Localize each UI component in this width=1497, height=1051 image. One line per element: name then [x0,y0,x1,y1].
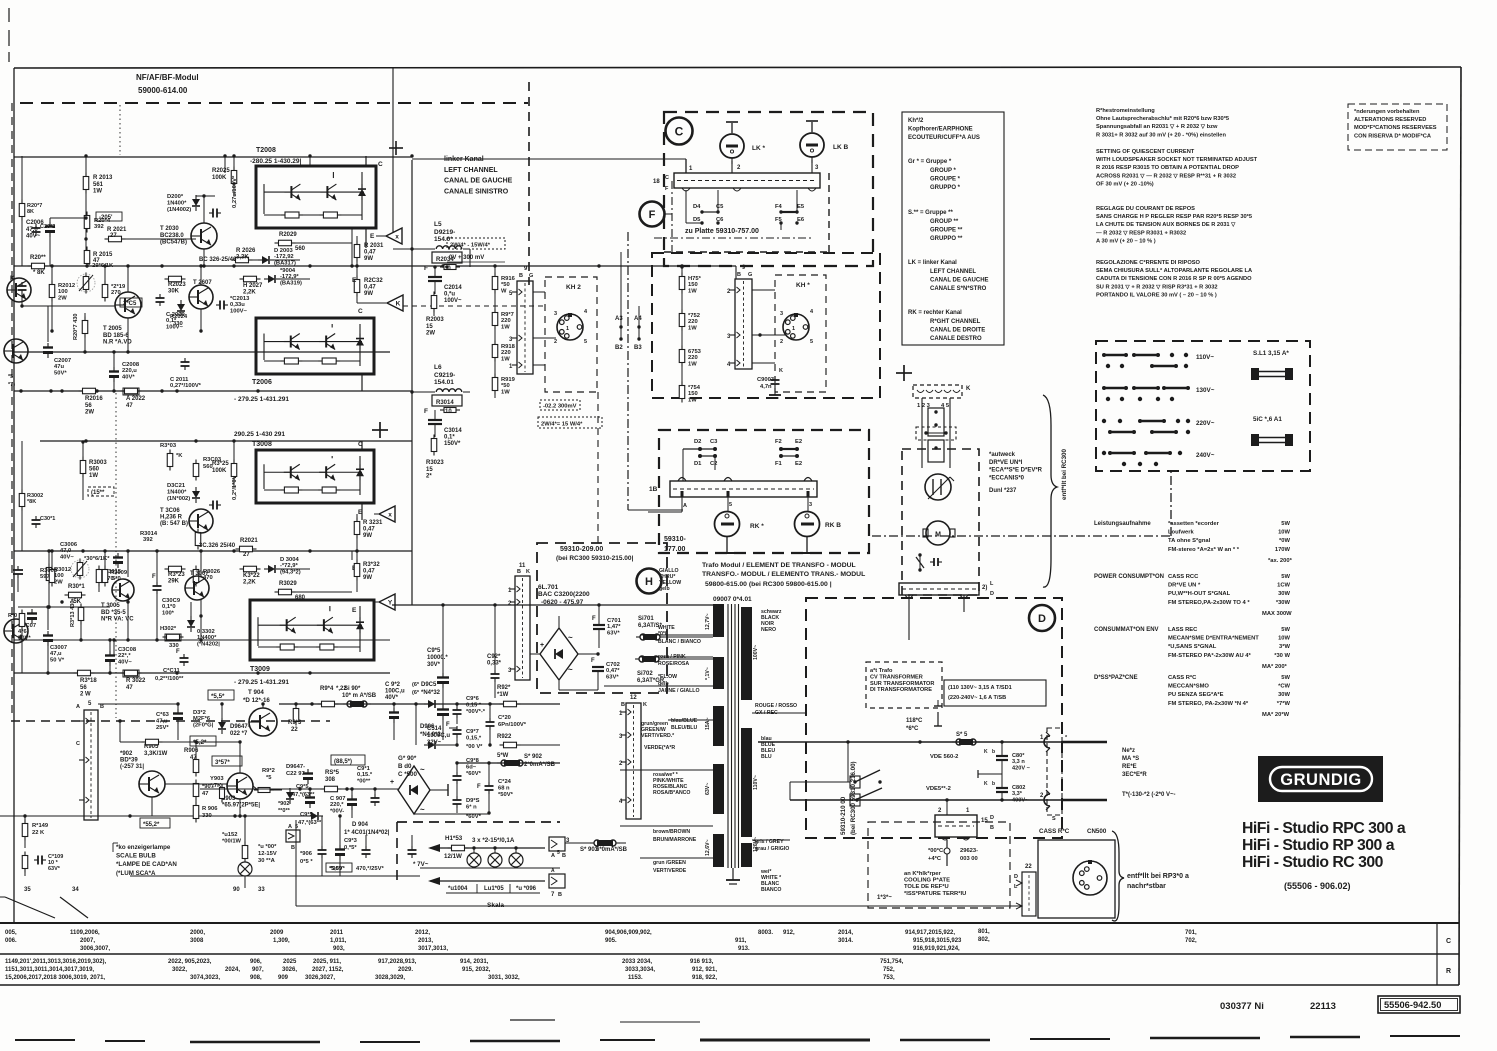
svg-text:H302*: H302* [160,626,177,632]
svg-text:B d0: B d0 [398,763,412,770]
svg-text:*30*6/1K*: *30*6/1K* [84,556,110,562]
triangle X ch1 [386,228,402,244]
svg-text:F1: F1 [775,461,783,467]
resistor R2032 [354,280,360,293]
resistor R2031 [354,245,360,258]
svg-text:*00/1W: *00/1W [222,838,242,844]
diode and small parts upper ch2 [193,464,199,477]
svg-text:GROUPE *: GROUPE * [930,176,961,182]
svg-text:270: 270 [111,290,121,296]
svg-text:K: K [984,781,988,787]
connector A5B small [286,830,300,842]
svg-text:*754: *754 [688,385,701,391]
svg-text:A: A [551,853,555,859]
svg-text:D9219-: D9219- [434,229,455,236]
svg-text:C30C9: C30C9 [162,598,181,604]
svg-text:B: B [517,569,521,575]
svg-text:R: R [1446,968,1451,975]
svg-text:0,15.*: 0,15.* [357,772,373,778]
svg-text:0,33u: 0,33u [230,302,245,308]
dotted divider x120 top [119,105,121,155]
drive unit exit wires [908,595,910,640]
svg-text:T 3007: T 3007 [190,571,209,577]
svg-text:SUR TRANSFORMATOR: SUR TRANSFORMATOR [870,681,934,687]
svg-text:F2: F2 [775,439,782,445]
svg-text:2,2K: 2,2K [243,290,256,296]
lamps Lu1004-1006 [467,853,481,867]
table line 3 [0,984,1459,986]
voltage row 220V [1140,420,1164,423]
transistor T904 [249,708,277,736]
module T3009 internal resistor 2 [250,600,374,660]
svg-text:VERDE(*A*R: VERDE(*A*R [644,745,675,751]
resistors R751-R754 chain [679,277,685,290]
capacitor C3012 [209,504,213,506]
svg-text:ROSE/ROSA: ROSE/ROSA [658,661,689,667]
svg-text:130V~: 130V~ [1196,387,1215,394]
svg-text:R919: R919 [501,377,516,383]
svg-text:2): 2) [982,585,987,591]
svg-text:0,47: 0,47 [364,249,376,255]
svg-text:*6*C: *6*C [906,726,919,732]
svg-text:3,3K: 3,3K [236,254,249,260]
resistor R3022 [125,670,138,676]
svg-text:C: C [1446,938,1451,945]
resistor R3023 [431,439,437,452]
svg-text:BC238.0: BC238.0 [160,233,184,239]
svg-text:C3006: C3006 [60,542,78,548]
svg-text:C*C11: C*C11 [163,668,181,674]
svg-text:R3*18: R3*18 [80,678,97,684]
svg-text:b: b [992,781,995,787]
svg-text:K: K [643,702,647,708]
svg-text:2025: 2025 [283,959,297,965]
diode D907 vertical [289,788,291,792]
svg-text:R 906: R 906 [202,806,218,812]
svg-text:6L.701: 6L.701 [538,584,559,591]
svg-text:10W: 10W [1278,530,1290,536]
svg-text:(110 130V~ 3,15 A T/SD1: (110 130V~ 3,15 A T/SD1 [948,685,1012,691]
boxed label 15.5V [208,690,234,700]
boxed label 88.5V [331,755,365,765]
svg-text:1W: 1W [501,356,510,362]
brace entfaellt RC300 [1043,395,1057,587]
connector strip A5B left [84,710,98,820]
svg-text:C9*7: C9*7 [466,729,479,735]
capacitor C2006 [49,222,51,227]
svg-text:2*C5: 2*C5 [123,301,137,307]
svg-text:30 **A: 30 **A [258,858,276,864]
svg-text:330: 330 [202,813,212,819]
svg-text:C9003: C9003 [757,377,775,383]
svg-text:E2: E2 [795,461,802,467]
svg-text:H 2027: H 2027 [243,283,263,289]
junction dots rails ch2 [84,439,87,442]
svg-text:*autweck: *autweck [989,452,1016,458]
svg-text:R916: R916 [501,276,516,282]
svg-text:*5: *5 [8,374,13,380]
GRUNDIG logo [1258,756,1383,802]
svg-text:R30*1: R30*1 [68,584,85,590]
svg-text:55506-942.50: 55506-942.50 [1384,1000,1441,1010]
svg-text:918, 922,: 918, 922, [692,975,717,981]
svg-text:C3C08: C3C08 [118,647,137,653]
svg-text:118*C: 118*C [906,718,923,724]
svg-text:*K: *K [176,453,183,459]
svg-text:*00V*-*: *00V*-* [466,709,486,715]
brace entfaellt RP300a [1112,831,1124,921]
svg-text:47: 47 [202,791,208,797]
svg-text:CON RISERVA D* MODIF*CA: CON RISERVA D* MODIF*CA [1354,133,1431,139]
svg-text:100V~: 100V~ [444,298,462,304]
svg-text:BIANCO: BIANCO [761,887,781,893]
svg-text:T 2005: T 2005 [103,326,122,332]
svg-text:*55,2*: *55,2* [143,822,160,828]
resistor R3011 [69,592,82,598]
border top [14,67,1461,68]
svg-text:VERT/VERDE: VERT/VERDE [653,868,687,874]
svg-text:KH 2: KH 2 [566,284,581,291]
svg-text:R*GHT CHANNEL: R*GHT CHANNEL [930,319,981,325]
plus sign top amp right [389,147,403,149]
svg-text:*C2013: *C2013 [230,296,250,302]
svg-text:1: 1 [792,326,795,332]
svg-text:47,u: 47,u [156,718,168,724]
svg-text:90: 90 [233,887,240,893]
dashed box RK block [659,430,869,553]
svg-text:22113: 22113 [1310,1001,1336,1012]
wire GL901 left [395,788,398,790]
svg-text:560: 560 [89,466,100,472]
svg-text:802,: 802, [978,937,990,943]
svg-text:8003.: 8003. [758,930,773,936]
triangle Y ch2 [379,594,395,610]
svg-text:5: 5 [729,502,732,508]
svg-text:10: 10 [445,409,452,415]
svg-text:C*24: C*24 [498,779,512,785]
svg-text:zu Platte 59310-757.00: zu Platte 59310-757.00 [685,228,759,235]
svg-text:(*N4202|: (*N4202| [197,641,220,647]
svg-text:COOLING P*ATE: COOLING P*ATE [904,878,950,884]
mains plug contact 1 [1044,736,1050,748]
svg-text:A 30 mV (+ 20 – 10 % ): A 30 mV (+ 20 – 10 % ) [1096,238,1156,244]
svg-text:B: B [100,704,104,710]
svg-text:903,: 903, [333,946,345,952]
svg-text:56: 56 [85,403,92,409]
svg-text:brown/BROWN: brown/BROWN [653,829,690,835]
svg-text:R 2031: R 2031 [364,243,384,249]
svg-text:D 904: D 904 [352,822,369,828]
svg-text:50 V*: 50 V* [50,657,65,663]
svg-text:(BA317): (BA317) [274,260,296,266]
svg-text:C: C [675,124,684,138]
svg-text:C: C [76,741,80,747]
svg-text:(BC547B): (BC547B) [160,240,187,246]
thermal fuse connector [935,815,977,837]
svg-text:Si702: Si702 [637,671,653,677]
svg-text:47,*(63**: 47,*(63** [292,792,315,798]
svg-text:1109,2006,: 1109,2006, [70,930,100,936]
svg-text:C*63: C*63 [156,712,170,718]
svg-text:5W: 5W [1281,521,1290,527]
table line 2 [0,953,1459,955]
svg-text:BD *35-5: BD *35-5 [101,610,126,616]
svg-text:*906: *906 [300,851,313,857]
svg-text:L5: L5 [434,221,442,228]
connector strip 11 B K [515,576,530,680]
svg-text:SU R 2031 ▽ + R 2032 ▽ RISP: SU R 2031 ▽ + R 2032 ▽ RISP R3*31 + R 30… [1096,284,1218,290]
dashed box KH1 [775,275,826,392]
svg-text:T 904: T 904 [248,689,264,696]
svg-text:W: W [501,288,507,294]
svg-text:9W: 9W [364,256,373,262]
svg-text:R3029: R3029 [279,581,297,587]
svg-text:B: B [291,845,295,851]
svg-text:A4: A4 [634,316,642,322]
svg-text:DI TRANSFORMATORE: DI TRANSFORMATORE [870,687,932,693]
svg-text:1,47*: 1,47* [607,624,621,630]
scale bulb [238,862,252,876]
svg-text:D9647-: D9647- [230,724,250,730]
wires strip to KH2 [533,291,545,293]
svg-text:*50: *50 [501,282,510,288]
dash-dot vertical A-line [627,232,629,510]
svg-text:12,7V~: 12,7V~ [705,613,711,630]
svg-text:Si701: Si701 [638,616,654,622]
svg-text:gelb: gelb [659,586,670,592]
svg-text:(1N*002): (1N*002) [167,496,190,502]
svg-text:NF/AF/BF-Modul: NF/AF/BF-Modul [136,73,199,82]
svg-text:100V~: 100V~ [753,645,759,660]
svg-text:-280.25 1-430.29|: -280.25 1-430.29| [250,158,302,165]
svg-text:D3*2: D3*2 [193,710,206,716]
svg-text:E2: E2 [795,439,802,445]
svg-text:F: F [424,265,428,272]
svg-text:240V~: 240V~ [1196,452,1215,459]
svg-text:K: K [984,749,988,755]
svg-text:R*149: R*149 [32,823,49,829]
dashed box 5.5V supply [397,821,560,823]
svg-text:B: B [990,825,994,831]
svg-text:D9C5: D9C5 [421,682,437,688]
transistor T2030 [191,223,217,249]
oval label 2W/4ohm ch2 [538,417,602,428]
svg-text:1: 1 [566,326,569,332]
resistor R2029 560 [279,240,292,246]
svg-text:560: 560 [203,464,213,470]
svg-text:MA* 200*: MA* 200* [1262,664,1288,670]
dashed box GL701 supply [537,543,667,693]
svg-text:2027, 1152,: 2027, 1152, [312,967,344,973]
svg-text:+4*C: +4*C [928,856,942,862]
fuse ratings box [944,680,1046,706]
svg-text:47,0: 47,0 [60,548,71,554]
svg-text:DR*VE UN *: DR*VE UN * [1168,583,1201,589]
left lamp rail [14,815,120,817]
svg-text:*ko enzeigerlampe: *ko enzeigerlampe [116,844,171,851]
svg-text:3017,3013,: 3017,3013, [418,946,448,952]
svg-text:150: 150 [688,391,698,397]
speaker LKII [800,133,824,157]
svg-text:D: D [990,591,994,597]
bridge rectifier GL701 [540,628,578,680]
svg-text:18: 18 [653,179,660,185]
svg-text:29K: 29K [168,579,180,585]
connector strip 12 B K [626,703,641,819]
svg-text:4*6: 4*6 [18,629,27,635]
svg-text:B: B [737,272,741,278]
wire feed into bar pin1 [412,158,686,160]
svg-text:C92*: C92* [487,654,501,660]
svg-text:C: C [378,161,383,168]
svg-text:0,*u: 0,*u [444,292,455,298]
svg-text:*-29*6/1K: *-29*6/1K [88,263,114,269]
svg-text:2*0mA*/SB: 2*0mA*/SB [524,762,556,768]
svg-text:Si 90*: Si 90* [344,686,361,692]
label 35.52V boxed [140,818,170,828]
svg-text:blau/BLUE: blau/BLUE [671,718,698,724]
svg-text:220: 220 [501,318,511,324]
svg-text:3026,3027,: 3026,3027, [305,975,335,981]
svg-text:R9*7: R9*7 [501,312,514,318]
board inner dashed edge right [828,173,830,252]
svg-text:GROUP *: GROUP * [930,168,957,174]
svg-text:3074,3023,: 3074,3023, [190,975,220,981]
vertical bus x393 [392,67,394,236]
resistor R3025 [193,570,199,583]
svg-text:5: 5 [557,850,560,856]
svg-text:C80*: C80* [1012,753,1025,759]
connector strip KH2 side [517,281,533,374]
svg-text:3014.: 3014. [838,938,853,944]
svg-text:B: B [621,702,625,708]
label 2005 box [120,298,142,307]
svg-text:RK B: RK B [825,522,841,529]
svg-text:801,: 801, [978,929,990,935]
svg-text:R9*2: R9*2 [262,768,275,774]
svg-text:915, 2032,: 915, 2032, [462,967,491,973]
wire L6 left [412,391,428,393]
table divider vertical [1436,923,1438,985]
transistor left edge ch1 [7,278,31,302]
svg-text:D*SS*PAZ*CNE: D*SS*PAZ*CNE [1094,675,1138,681]
svg-text:110V~: 110V~ [753,775,759,790]
svg-text:*30W: *30W [1276,600,1291,606]
svg-text:*N4*32: *N4*32 [421,690,441,696]
svg-text:S* 902: S* 902 [524,754,543,760]
svg-text:(bei RC300 59310 216.00): (bei RC300 59310 216.00) [850,761,857,835]
svg-text:+: + [540,642,544,649]
svg-text:*5,5V*: *5,5V* [329,866,346,872]
capacitor C9003 [774,376,776,380]
headphone connector bar [674,173,820,188]
wires GL701 [578,653,598,655]
svg-text:D2: D2 [694,439,701,445]
svg-text:R3*03: R3*03 [160,443,177,449]
svg-text:30W: 30W [1278,692,1290,698]
svg-text:1* 4C01(1N4*02|: 1* 4C01(1N4*02| [344,830,390,836]
svg-text:907,: 907, [252,967,264,973]
svg-text:K3*22: K3*22 [243,573,260,579]
svg-text:916 913,: 916 913, [690,959,714,965]
capacitor C3011 [183,654,185,658]
svg-text:12,6V~: 12,6V~ [705,839,711,856]
svg-text:420V ~: 420V ~ [1012,765,1031,771]
rail supply 704 [279,703,560,705]
wires thermal [919,800,921,815]
svg-text:3 x *2-15*/0,1A: 3 x *2-15*/0,1A [472,837,515,844]
border right [1459,67,1461,985]
svg-text:15,2006,2017,2018 3006,3019, 2: 15,2006,2017,2018 3006,3019, 2071, [5,975,105,981]
cap C935 [309,793,311,798]
svg-text:1W: 1W [688,288,697,294]
svg-text:30V*: 30V* [427,662,441,668]
svg-text:LEFT CHANNEL: LEFT CHANNEL [930,269,976,275]
svg-text:56: 56 [80,685,87,691]
svg-text:63V*: 63V* [48,866,61,872]
wires CN500 left [920,883,1022,885]
svg-text:MOD*F*CATIONS RESERVEES: MOD*F*CATIONS RESERVEES [1354,125,1437,131]
svg-text:*D 12*-16: *D 12*-16 [243,697,270,704]
svg-text:FM-STEREO PA*-2x30W AU 4*: FM-STEREO PA*-2x30W AU 4* [1168,653,1252,659]
svg-text:15A~: 15A~ [705,717,711,730]
svg-text:0,27u/100V*: 0,27u/100V* [232,175,238,208]
rail top channel1 [14,156,412,158]
svg-text:GROUPE **: GROUPE ** [930,227,963,233]
svg-text:680: 680 [295,595,306,601]
boxed 30.57 [212,756,242,766]
svg-text:R2029: R2029 [279,232,297,238]
svg-text:-172,92: -172,92 [274,254,294,260]
svg-text:TA ohne S*gnal: TA ohne S*gnal [1168,538,1211,544]
svg-text:1149,201',2011,3013,3016,2019,: 1149,201',2011,3013,3016,2019,302), [5,959,107,965]
motor M [926,521,950,545]
drive unit dashed box [902,449,979,595]
svg-text:FM-stereo *A=2x* W an * *: FM-stereo *A=2x* W an * * [1168,547,1240,553]
CASS REC box [1038,840,1115,918]
rail 763 [457,762,560,764]
circle C [666,118,693,145]
svg-text:1153.: 1153. [628,975,643,981]
rail mid channel1 [14,265,736,267]
svg-text:A: A [551,868,555,874]
svg-text:HiFi - Studio RC 300: HiFi - Studio RC 300 [1242,854,1384,871]
svg-text:40V*: 40V* [385,695,399,701]
resistor R3018 [78,670,91,676]
svg-text:3,3*: 3,3* [1012,791,1023,797]
svg-text:C30*1: C30*1 [40,516,55,522]
capacitor C3007 [47,631,49,636]
svg-text:A3: A3 [615,316,623,322]
svg-text:T 3005: T 3005 [101,603,120,609]
svg-text:~: ~ [420,805,425,814]
svg-text:FM STEREO, PA-2x30W *N 4*: FM STEREO, PA-2x30W *N 4* [1168,701,1249,707]
svg-text:220,u: 220,u [122,368,137,374]
svg-text:CADUTA DI TENSIONE CON R 20: CADUTA DI TENSIONE CON R 2016 R SP R 00*… [1096,276,1252,282]
cap C916 [456,706,458,710]
resistor R3024 [167,634,180,640]
svg-text:68 n: 68 n [498,785,510,791]
svg-text:S.L1 3,15 A*: S.L1 3,15 A* [1253,350,1289,357]
svg-text:3*57*: 3*57* [215,760,230,766]
svg-text:BD*39: BD*39 [120,758,138,764]
svg-text:CONSUMMAT*ON ENV: CONSUMMAT*ON ENV [1094,627,1159,633]
svg-text:0,1*: 0,1* [444,435,455,441]
svg-text:0,47: 0,47 [364,284,376,290]
svg-text:2,2K: 2,2K [243,580,256,586]
svg-text:1CW: 1CW [1277,583,1290,589]
speaker RKI [715,512,740,537]
